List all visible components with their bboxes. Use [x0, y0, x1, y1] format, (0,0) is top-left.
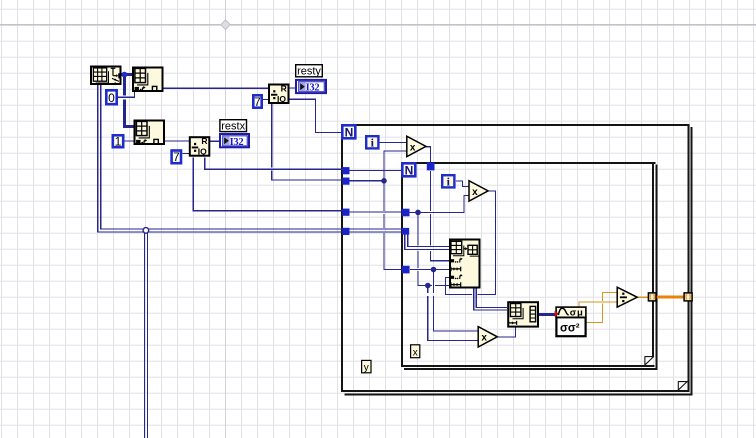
wire: constant 1 to index array 2: [125, 140, 134, 142]
outer for-loop right border shadow line: [690, 127, 692, 396]
wire: junction D down to multiply 3 upper input: [434, 270, 479, 332]
tunnel T2: [342, 178, 349, 185]
inner loop i iteration terminal: [442, 175, 454, 189]
svg-text:x: x: [481, 333, 487, 344]
svg-text:IQ: IQ: [198, 147, 207, 157]
svg-text:σσ²: σσ²: [560, 323, 580, 335]
wire: i2 terminal to multiply 2 upper input: [456, 181, 469, 186]
inner loop N count terminal: [402, 163, 415, 177]
origin crosshair horizontal line: [0, 24, 756, 25]
outer for-loop bottom border line1: [341, 390, 690, 392]
tunnel T6: [402, 209, 410, 217]
wire: QR2 quotient output down to tunnel T2: [193, 158, 342, 211]
junction dot C: [425, 283, 431, 289]
wire: constant 7a to quotient-remainder 1: [263, 98, 268, 100]
wire: junction down to tunnel T8: [384, 181, 402, 270]
junction dot B: [415, 210, 421, 216]
inner for-loop right border line1: [652, 162, 654, 367]
restx I32 indicator: [220, 134, 249, 148]
y frame label: [362, 360, 371, 373]
inner for-loop bottom border line1: [401, 365, 655, 367]
svg-text:7: 7: [254, 95, 261, 109]
wire: sigma top output to divide lower input (orange): [579, 302, 617, 306]
index array node 2: [135, 121, 165, 145]
svg-text:R: R: [201, 136, 207, 146]
wire: junction B down to subVI row4 input: [418, 212, 449, 285]
restx label: [220, 120, 247, 133]
wire: T5 down to subVI row1 input: [431, 171, 449, 261]
outer loop i iteration terminal: [366, 136, 378, 150]
tunnel T5: [427, 162, 435, 170]
outer loop N count terminal: [342, 125, 355, 139]
wire: T8 to subVI row2 input: [410, 269, 449, 271]
svg-text:μ: μ: [577, 307, 583, 318]
svg-text:y: y: [364, 363, 369, 374]
multiply node 2: [469, 181, 488, 201]
svg-text:IQ: IQ: [277, 94, 286, 104]
outer for-loop bottom border shadow line: [344, 393, 692, 395]
wire: QR2 IQ output down to tunnel T1: [205, 158, 343, 170]
divide node: [617, 287, 637, 307]
wire: 2D array double wire branch down to bottom edge: [145, 232, 148, 438]
reshape to 1D node: [508, 302, 538, 326]
svg-text:I32: I32: [230, 137, 244, 148]
wire: tunnel T2 to junction, up to multiply 1 lower input: [349, 151, 407, 181]
std deviation & variance VI node: [555, 307, 587, 336]
svg-text:restx: restx: [221, 120, 245, 132]
junction circle on 2D wire: [143, 228, 149, 234]
tunnel T7: [402, 228, 409, 235]
wire: array terminal to index array 1 (thick): [122, 73, 133, 76]
resty I32 indicator: [296, 80, 326, 94]
wire: thick orange array wire between indexing tunnels: [656, 296, 684, 299]
wire: reshape output to sigma VI (thick 1D): [539, 313, 556, 316]
origin diamond marker: [221, 20, 230, 30]
inner for-loop bottom border shadow line: [404, 368, 658, 370]
junction dot D: [431, 267, 437, 273]
svg-text:7: 7: [173, 150, 180, 164]
wire: multiply 2 output down and around to subVI row3 input: [446, 191, 496, 295]
wire: QR1 IQ output to outer loop N terminal: [290, 99, 342, 132]
inner for-loop right border shadow line: [656, 164, 658, 370]
wire: subVI 2D output double wire to reshape node: [474, 289, 508, 311]
wire: sigma right output to divide upper input (orange): [587, 293, 618, 323]
wire: thick branch down from junction to index array 2: [123, 75, 134, 128]
2D array control terminal with icon: [91, 67, 121, 85]
constant 7 upper: [253, 95, 261, 109]
constant 7 lower: [172, 150, 181, 164]
wire: QR1 bottom output down to tunnel T3: [272, 104, 343, 180]
junction dot on terminal output: [122, 72, 128, 78]
indexing tunnel on outer loop border: [684, 293, 692, 301]
wire: divide output to inner indexing tunnel (orange): [636, 296, 648, 298]
tunnel T4: [342, 228, 349, 235]
svg-text:N: N: [345, 125, 354, 139]
wire: index array 2 output to quotient-remainder 2: [165, 140, 189, 142]
wire: double 2D wire tunnel T4 to inner tunnel T7: [349, 229, 402, 232]
wire: i1 terminal to multiply 1 upper input: [380, 142, 407, 144]
inner loop folded corner: [645, 356, 654, 365]
wire: T6 to multiply 2 lower input: [410, 195, 469, 212]
svg-text:σ: σ: [570, 307, 577, 318]
wire: index array 1 output to quotient-remainder 1: [164, 87, 269, 89]
resty label: [296, 65, 323, 78]
svg-text:x: x: [413, 347, 418, 358]
constant 1: [113, 135, 123, 149]
quotient-remainder node 2: [190, 136, 210, 157]
svg-text:x: x: [472, 187, 478, 198]
svg-text:x: x: [410, 142, 416, 153]
svg-text:resty: resty: [297, 66, 321, 78]
svg-text:I32: I32: [306, 83, 320, 94]
tunnel T8: [402, 266, 410, 274]
index array node 1: [133, 68, 163, 92]
wire: QR2 R output to restx indicator: [210, 140, 219, 142]
origin crosshair vertical line: [225, 0, 226, 438]
x frame label: [411, 345, 420, 359]
wire: tunnel T3 to inner tunnel T6: [349, 211, 401, 213]
junction dot A: [381, 178, 387, 184]
outer for-loop right border line1: [687, 124, 689, 392]
multiply node 3: [478, 327, 497, 347]
indexing tunnel on inner loop border: [648, 293, 656, 301]
wire: double 2D wire T7 down to subVI array input: [405, 235, 449, 250]
wire: junction C down to multiply 3 lower input: [428, 286, 478, 341]
svg-text:N: N: [405, 163, 414, 177]
wire: multiply 1 output to inner tunnel T5: [426, 147, 431, 163]
inner for-loop top border: [401, 162, 656, 164]
constant 0: [106, 90, 116, 105]
reshape/insert subVI node: [450, 240, 480, 288]
wire: constant 7b to quotient-remainder 2: [182, 152, 189, 154]
wire: QR1 R output to resty indicator: [290, 87, 296, 89]
quotient-remainder node 1: [269, 83, 289, 104]
svg-text:1: 1: [115, 135, 122, 149]
inner for-loop left border: [401, 162, 403, 367]
wire: multiply 3 output up into reshape bottom: [497, 328, 515, 337]
tunnel T1: [342, 167, 349, 174]
outer for-loop left border: [341, 124, 343, 392]
svg-text:R: R: [281, 83, 287, 93]
wire: constant 0 to index array 1: [118, 92, 135, 97]
wire: tunnel T1 to inner loop N terminal: [349, 170, 401, 172]
outer for-loop top border: [341, 124, 689, 126]
svg-text:0: 0: [108, 91, 115, 105]
multiply node 1: [407, 136, 426, 156]
tunnel T3: [342, 209, 349, 216]
wire: 2D array double wire from terminal down and right to outer tunnel T4: [98, 85, 342, 232]
outer loop folded corner: [678, 381, 687, 390]
